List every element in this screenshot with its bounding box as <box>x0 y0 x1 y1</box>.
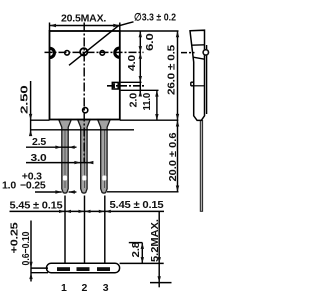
svg-text:0.6−0.10: 0.6−0.10 <box>20 231 32 265</box>
svg-text:3.0: 3.0 <box>31 152 47 164</box>
svg-text:∅3.3 ± 0.2: ∅3.3 ± 0.2 <box>134 12 176 24</box>
svg-text:2.0: 2.0 <box>128 93 140 108</box>
svg-text:4.0: 4.0 <box>126 55 138 71</box>
svg-text:5.45 ± 0.15: 5.45 ± 0.15 <box>110 199 164 211</box>
svg-text:+0.25: +0.25 <box>9 222 21 253</box>
svg-text:−0.25: −0.25 <box>20 180 46 192</box>
svg-text:5.45 ± 0.15: 5.45 ± 0.15 <box>10 200 63 212</box>
svg-text:11.0: 11.0 <box>141 93 153 111</box>
svg-text:3: 3 <box>103 282 109 294</box>
svg-text:20.0 ± 0.6: 20.0 ± 0.6 <box>167 132 179 181</box>
svg-text:6.0: 6.0 <box>144 33 156 51</box>
svg-text:1.0: 1.0 <box>2 180 16 192</box>
svg-text:2: 2 <box>82 282 88 294</box>
svg-text:5.2MAX.: 5.2MAX. <box>149 219 161 262</box>
svg-text:1: 1 <box>61 282 67 294</box>
svg-text:2.8: 2.8 <box>130 242 142 258</box>
svg-text:2.50: 2.50 <box>18 85 30 114</box>
svg-text:26.0 ± 0.5: 26.0 ± 0.5 <box>166 45 178 95</box>
svg-text:2.5: 2.5 <box>32 136 46 148</box>
svg-text:20.5MAX.: 20.5MAX. <box>61 13 106 25</box>
